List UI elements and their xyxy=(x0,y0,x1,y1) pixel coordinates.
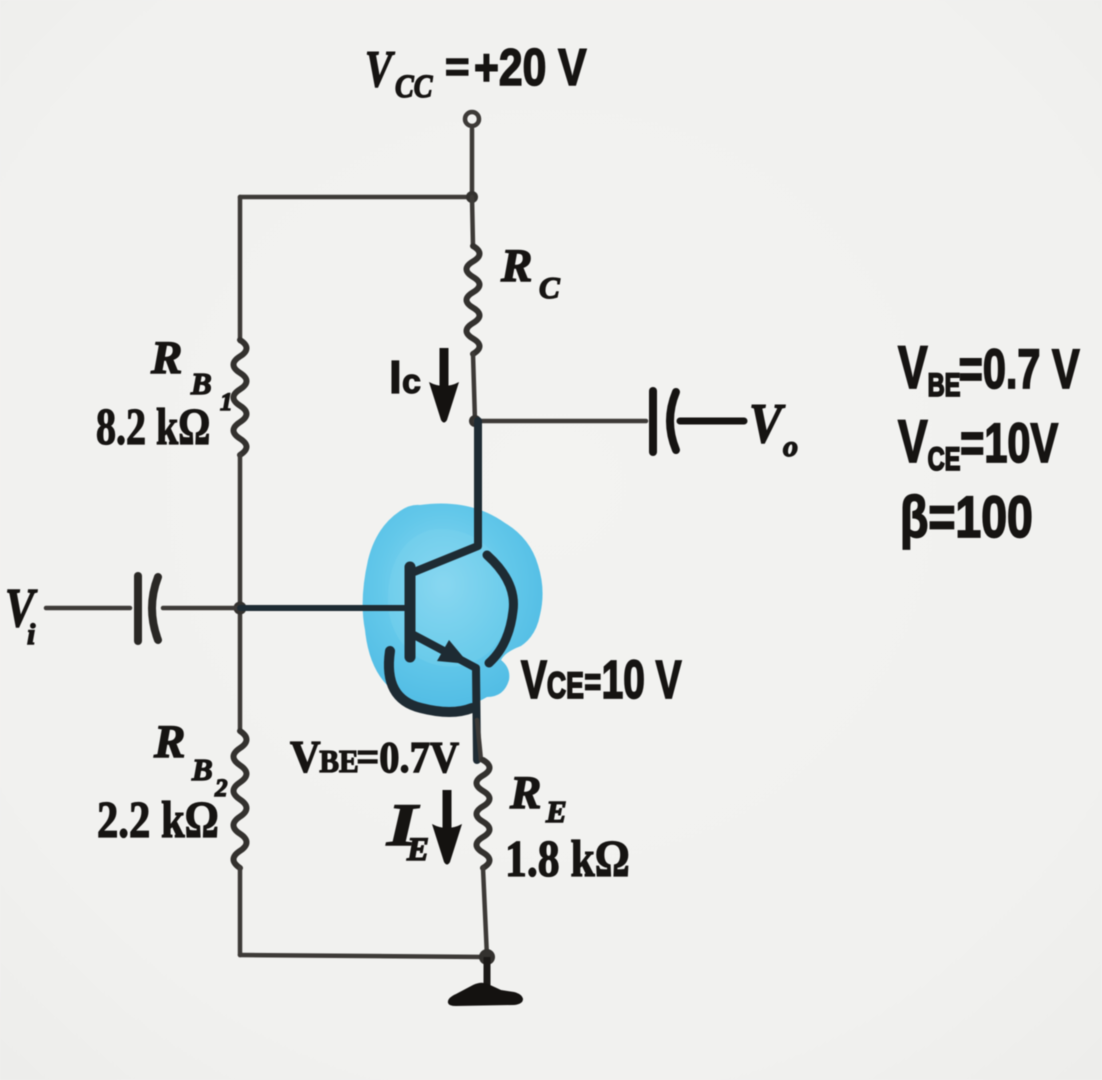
wire left branch middle xyxy=(238,455,243,731)
svg-text:V: V xyxy=(521,649,547,710)
wire collector node to output cap xyxy=(475,419,646,424)
svg-text:E: E xyxy=(545,794,567,829)
wire output cap to Vo xyxy=(680,418,744,425)
svg-text:2.2 kΩ: 2.2 kΩ xyxy=(97,792,219,849)
ground xyxy=(448,983,523,1006)
wire left branch lower xyxy=(238,868,243,955)
side data: VCE=10V xyxy=(898,409,1058,477)
svg-text:V: V xyxy=(290,731,321,782)
wire top horizontal xyxy=(240,195,473,200)
wire RC to collector node xyxy=(473,354,475,421)
svg-text:V: V xyxy=(749,393,785,455)
svg-text:V: V xyxy=(365,40,395,98)
svg-text:c: c xyxy=(402,363,421,401)
svg-text:R: R xyxy=(150,332,182,384)
highlighter blob over transistor Q1 xyxy=(363,503,543,707)
svg-text:I: I xyxy=(389,351,402,403)
label Vo xyxy=(749,393,798,463)
transistor Q1 circle bottom-left arc xyxy=(389,651,472,712)
wire RE to ground node xyxy=(483,868,487,957)
svg-text:+20 V: +20 V xyxy=(474,39,587,97)
svg-text:=: = xyxy=(445,43,470,90)
wire Vcc terminal to top node xyxy=(470,129,475,197)
junction top node xyxy=(466,191,478,203)
wire base node to base xyxy=(240,605,406,611)
svg-text:R: R xyxy=(500,240,532,292)
label Ic with current arrow xyxy=(389,348,459,423)
transistor Q1 emitter lead with arrow xyxy=(412,634,477,760)
svg-text:V: V xyxy=(898,335,928,402)
label RC xyxy=(500,240,560,305)
svg-text:β=100: β=100 xyxy=(900,485,1033,550)
svg-text:BE: BE xyxy=(928,368,961,403)
Vcc terminal xyxy=(465,112,479,126)
svg-text:C: C xyxy=(539,270,560,305)
wire stub to ground xyxy=(484,957,491,987)
svg-text:R: R xyxy=(153,716,185,768)
svg-text:B: B xyxy=(191,752,213,787)
label IE with current arrow xyxy=(386,790,462,868)
svg-text:10 V: 10 V xyxy=(602,649,682,710)
svg-text:B: B xyxy=(190,366,212,401)
svg-text:E: E xyxy=(406,832,429,868)
wire input cap to base node xyxy=(163,606,240,611)
wire right branch upper xyxy=(472,197,473,246)
capacitor C2 (output) xyxy=(653,391,676,452)
svg-text:=: = xyxy=(584,659,601,704)
node Vcc label xyxy=(365,39,587,104)
resistor RB1 xyxy=(234,340,247,455)
junction collector node xyxy=(469,415,481,427)
svg-text:=0.7 V: =0.7 V xyxy=(959,338,1080,401)
label RB2 xyxy=(153,716,228,802)
resistor RE xyxy=(477,760,490,868)
resistor RB2 xyxy=(234,731,247,868)
transistor Q1 base bar xyxy=(405,567,416,657)
transistor Q1 collector lead xyxy=(414,421,478,572)
capacitor C1 (input) xyxy=(138,576,158,641)
svg-text:1.8 kΩ: 1.8 kΩ xyxy=(505,831,630,888)
label RE xyxy=(509,767,567,829)
svg-text:i: i xyxy=(27,618,36,651)
wire left branch upper xyxy=(238,197,243,341)
svg-text:CE: CE xyxy=(928,442,961,477)
junction ground node xyxy=(479,949,495,965)
svg-text:CE: CE xyxy=(547,665,584,706)
label VBE=0.7V xyxy=(290,731,460,782)
side data: VBE=0.7 V xyxy=(898,335,1080,403)
transistor Q1 circle right arc xyxy=(487,555,513,663)
wire bottom horizontal xyxy=(240,955,487,957)
svg-text:1: 1 xyxy=(220,389,233,416)
svg-text:=10V: =10V xyxy=(960,412,1058,475)
svg-text:=0.7V: =0.7V xyxy=(356,733,459,782)
label RB1 xyxy=(150,332,233,416)
svg-text:CC: CC xyxy=(395,68,433,105)
svg-text:BE: BE xyxy=(319,744,358,779)
svg-text:o: o xyxy=(783,430,798,463)
junction base node xyxy=(234,602,247,615)
svg-text:R: R xyxy=(509,767,541,819)
wire emitter to RE xyxy=(477,720,481,760)
resistor RC xyxy=(467,246,480,354)
label Vi xyxy=(5,577,38,651)
label VCE=10 V xyxy=(521,649,682,710)
svg-text:8.2 kΩ: 8.2 kΩ xyxy=(96,399,210,456)
svg-text:V: V xyxy=(898,409,928,476)
side data: beta=100 xyxy=(900,485,1033,550)
wire Vi to input cap xyxy=(46,606,130,611)
